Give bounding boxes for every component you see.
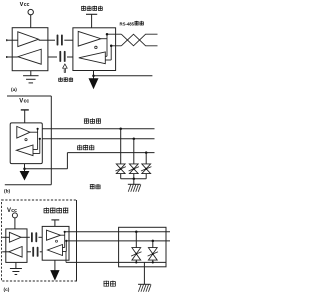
svg-text:cc: cc — [24, 99, 30, 105]
svg-text:(a): (a) — [11, 87, 17, 93]
svg-text:(c): (c) — [4, 287, 10, 293]
svg-text:(b): (b) — [4, 189, 11, 195]
svg-text:cc: cc — [24, 2, 30, 8]
svg-text:RS-485: RS-485 — [120, 21, 135, 26]
